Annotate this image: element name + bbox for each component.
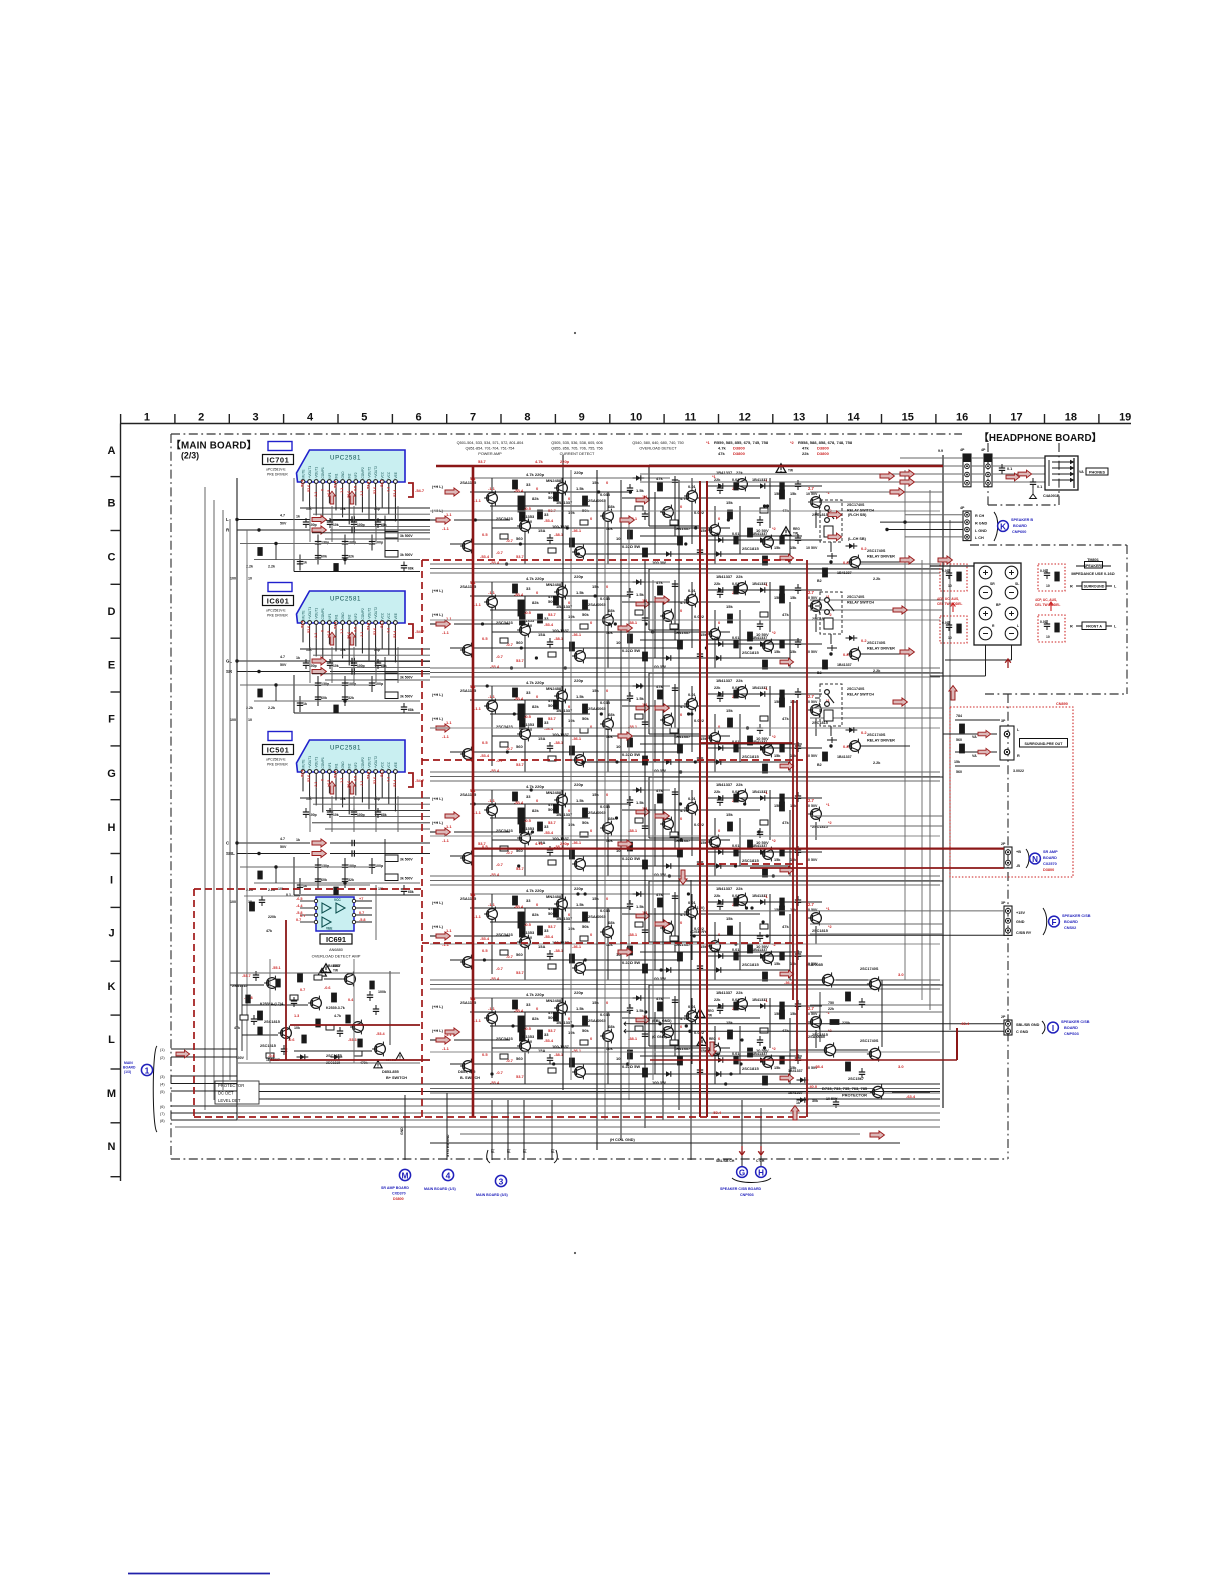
- svg-text:PRE DRIVER: PRE DRIVER: [267, 473, 288, 477]
- svg-text:VCC: VCC: [387, 471, 391, 478]
- svg-text:2SA/0085: 2SA/0085: [806, 963, 823, 967]
- svg-text:SR: SR: [990, 582, 995, 586]
- svg-text:4.7: 4.7: [280, 655, 285, 659]
- svg-text:-0.7: -0.7: [496, 550, 504, 555]
- svg-text:100: 100: [230, 718, 236, 722]
- svg-text:100-1337: 100-1337: [552, 732, 570, 737]
- svg-text:-0.5: -0.5: [524, 1026, 532, 1031]
- svg-text:50k: 50k: [582, 924, 589, 929]
- svg-text:SR: SR: [226, 669, 233, 674]
- svg-text:560: 560: [516, 1056, 523, 1061]
- svg-text:F: F: [1052, 918, 1057, 927]
- svg-text:1B41337: 1B41337: [716, 574, 733, 579]
- svg-text:-1.1: -1.1: [488, 798, 496, 803]
- svg-text:1B41337: 1B41337: [788, 1069, 803, 1073]
- svg-text:VEE: VEE: [326, 927, 332, 931]
- svg-text:-53.4: -53.4: [393, 631, 397, 639]
- svg-text:68k: 68k: [381, 813, 387, 817]
- svg-text:10: 10: [616, 744, 621, 749]
- svg-text:3k 500V: 3k 500V: [400, 553, 413, 557]
- svg-text:K: K: [108, 981, 116, 993]
- svg-text:4.7: 4.7: [280, 514, 285, 518]
- svg-text:0.8: 0.8: [843, 560, 849, 565]
- svg-text:-1.1: -1.1: [442, 838, 450, 843]
- svg-text:5W: 5W: [526, 935, 532, 940]
- svg-text:1B41337: 1B41337: [752, 686, 767, 690]
- svg-text:PRE DRIVER: PRE DRIVER: [267, 763, 288, 767]
- svg-text:15k: 15k: [592, 584, 599, 589]
- svg-text:0: 0: [320, 779, 324, 781]
- svg-text:UPC2581: UPC2581: [330, 596, 361, 603]
- svg-text:0.5: 0.5: [482, 532, 488, 537]
- svg-text:-53.4: -53.4: [393, 780, 397, 788]
- svg-text:15k: 15k: [774, 962, 781, 966]
- svg-text:0.8: 0.8: [843, 652, 849, 657]
- svg-text:1B41337: 1B41337: [674, 526, 691, 531]
- svg-text:15k: 15k: [306, 648, 312, 652]
- svg-text:15k: 15k: [592, 792, 599, 797]
- svg-text:15k: 15k: [726, 604, 733, 609]
- svg-text:10: 10: [616, 640, 621, 645]
- svg-text:68k: 68k: [608, 712, 615, 717]
- svg-text:B: B: [108, 498, 116, 510]
- svg-text:-1.1: -1.1: [488, 590, 496, 595]
- svg-text:RELAY DRIVER: RELAY DRIVER: [867, 647, 895, 651]
- svg-text:-53.4: -53.4: [367, 623, 371, 631]
- svg-text:53.7: 53.7: [478, 459, 487, 464]
- svg-text:82k: 82k: [532, 912, 539, 917]
- svg-text:12: 12: [739, 412, 751, 424]
- svg-text:3.0: 3.0: [898, 1064, 904, 1069]
- svg-text:4: 4: [446, 1171, 451, 1181]
- svg-text:-1.1: -1.1: [488, 902, 496, 907]
- svg-text:MN2488: MN2488: [546, 478, 562, 483]
- svg-text:(7): (7): [160, 1112, 165, 1116]
- svg-text:VA: VA: [972, 754, 977, 758]
- svg-text:1B41337: 1B41337: [556, 708, 573, 713]
- svg-text:10k: 10k: [340, 648, 346, 652]
- svg-text:-54.7: -54.7: [415, 778, 425, 783]
- svg-text:OVERLOAD DETECT: OVERLOAD DETECT: [639, 446, 677, 450]
- svg-text:COMP1: COMP1: [321, 467, 325, 479]
- svg-text:14: 14: [847, 412, 860, 424]
- svg-text:2SC15k7: 2SC15k7: [848, 1077, 864, 1081]
- svg-text:E: E: [108, 660, 115, 672]
- svg-text:+B: +B: [1016, 850, 1021, 854]
- svg-text:0.5: 0.5: [482, 948, 488, 953]
- svg-text:BP: BP: [996, 603, 1001, 607]
- svg-text:(+H L): (+H L): [432, 925, 444, 929]
- svg-text:BOARD: BOARD: [1043, 856, 1057, 860]
- svg-text:15k: 15k: [774, 858, 781, 862]
- svg-text:-53.4: -53.4: [334, 771, 338, 779]
- svg-text:15k: 15k: [774, 596, 781, 600]
- svg-text:2SC3423: 2SC3423: [496, 516, 513, 521]
- svg-text:B2: B2: [817, 671, 822, 675]
- svg-text:-53.4: -53.4: [367, 482, 371, 490]
- svg-text:22k: 22k: [736, 782, 743, 787]
- svg-text:MN2488: MN2488: [546, 582, 562, 587]
- svg-text:1.5k: 1.5k: [576, 902, 585, 907]
- svg-text:(+H L): (+H L): [432, 821, 444, 825]
- svg-text:0.01: 0.01: [688, 796, 697, 801]
- svg-text:0.2: 0.2: [861, 638, 867, 643]
- svg-text:-VOUT1: -VOUT1: [315, 757, 319, 769]
- svg-text:4.7k 220p: 4.7k 220p: [526, 576, 545, 581]
- svg-text:560: 560: [516, 536, 523, 541]
- svg-text:2SC3423: 2SC3423: [496, 932, 513, 937]
- svg-text:-VOUT1: -VOUT1: [315, 467, 319, 479]
- svg-text:50V: 50V: [280, 663, 287, 667]
- svg-text:J: J: [108, 927, 114, 939]
- svg-text:*1: *1: [826, 803, 830, 807]
- svg-text:R: R: [1017, 754, 1020, 758]
- svg-text:2SC1815: 2SC1815: [812, 929, 828, 933]
- svg-text:IN1: IN1: [334, 614, 338, 619]
- svg-text:BOARD: BOARD: [123, 1066, 136, 1070]
- svg-text:100-1337: 100-1337: [552, 1044, 570, 1049]
- svg-text:1k: 1k: [296, 838, 300, 842]
- svg-text:-VOUT1: -VOUT1: [315, 608, 319, 620]
- svg-text:22k: 22k: [828, 1007, 834, 1011]
- svg-text:CNPS03: CNPS03: [1064, 1032, 1079, 1036]
- svg-text:2.7: 2.7: [808, 1006, 814, 1011]
- svg-text:-0.5: -0.5: [353, 776, 357, 782]
- svg-text:REG: REG: [793, 527, 800, 531]
- svg-text:-0.6: -0.6: [288, 1038, 295, 1042]
- svg-text:4.7k: 4.7k: [680, 808, 689, 813]
- svg-text:-53.4: -53.4: [367, 772, 371, 780]
- svg-text:1.5k: 1.5k: [636, 488, 645, 493]
- svg-text:15A: 15A: [538, 736, 545, 741]
- svg-text:(+H L): (+H L): [432, 717, 444, 721]
- svg-text:47k: 47k: [234, 1026, 240, 1030]
- svg-text:-52.6: -52.6: [373, 487, 377, 495]
- svg-text:68k: 68k: [608, 816, 615, 821]
- svg-text:10k: 10k: [340, 507, 346, 511]
- svg-text:MN2488: MN2488: [546, 894, 562, 899]
- svg-text:TW: TW: [788, 469, 793, 473]
- svg-text:50V: 50V: [280, 845, 287, 849]
- svg-text:-53.4: -53.4: [514, 1008, 524, 1013]
- svg-text:22k: 22k: [714, 532, 721, 536]
- svg-text:0.22Ω 5W: 0.22Ω 5W: [622, 856, 640, 861]
- svg-text:IC501: IC501: [267, 746, 290, 755]
- svg-text:50k: 50k: [606, 630, 613, 635]
- svg-text:15A: 15A: [538, 528, 545, 533]
- svg-text:53.7: 53.7: [516, 970, 525, 975]
- svg-text:22k: 22k: [802, 451, 809, 456]
- svg-text:10k: 10k: [568, 614, 575, 619]
- svg-text:-0.7: -0.7: [506, 850, 514, 855]
- svg-text:IC601: IC601: [267, 597, 290, 606]
- svg-text:2.7: 2.7: [808, 694, 814, 699]
- svg-text:1B41337: 1B41337: [752, 478, 767, 482]
- svg-text:17: 17: [1010, 412, 1022, 424]
- svg-text:2.2k: 2.2k: [873, 669, 881, 673]
- svg-text:18: 18: [1065, 412, 1077, 424]
- svg-text:10k: 10k: [333, 664, 339, 668]
- svg-text:1.5k: 1.5k: [636, 696, 645, 701]
- svg-text:-38.1: -38.1: [628, 932, 638, 937]
- svg-text:(+H L): (+H L): [432, 797, 444, 801]
- svg-text:15k: 15k: [790, 546, 797, 550]
- svg-text:C/SB RY: C/SB RY: [1016, 931, 1032, 935]
- svg-text:220p: 220p: [560, 459, 570, 464]
- svg-text:K: K: [1000, 522, 1006, 531]
- svg-text:POWER AMP: POWER AMP: [478, 452, 502, 456]
- svg-text:-38.4: -38.4: [814, 1064, 824, 1069]
- svg-text:RELAY SWITCH: RELAY SWITCH: [847, 601, 874, 605]
- svg-text:-53.4: -53.4: [393, 490, 397, 498]
- svg-text:-53.4: -53.4: [480, 936, 490, 941]
- svg-text:2.2k: 2.2k: [873, 577, 881, 581]
- svg-text:-1.1: -1.1: [360, 632, 364, 638]
- svg-text:0.01: 0.01: [688, 900, 697, 905]
- svg-text:15k: 15k: [954, 760, 960, 764]
- svg-text:8: 8: [524, 412, 530, 424]
- svg-text:MUTE: MUTE: [301, 469, 305, 478]
- svg-text:COMP2: COMP2: [361, 608, 365, 620]
- svg-text:-0.7: -0.7: [496, 654, 504, 659]
- svg-text:10k: 10k: [294, 1026, 300, 1030]
- svg-text:47k: 47k: [802, 445, 809, 450]
- svg-text:53.7: 53.7: [548, 716, 557, 721]
- svg-text:CNS02: CNS02: [1064, 926, 1076, 930]
- svg-text:33: 33: [526, 690, 531, 695]
- svg-text:53.7: 53.7: [548, 924, 557, 929]
- svg-text:-53.4: -53.4: [544, 934, 554, 939]
- svg-text:I: I: [1052, 1024, 1054, 1033]
- svg-text:0.1: 0.1: [1007, 467, 1012, 471]
- svg-text:9.9: 9.9: [938, 449, 943, 453]
- svg-text:4.7: 4.7: [280, 837, 285, 841]
- svg-text:33: 33: [526, 482, 531, 487]
- svg-text:-1.1: -1.1: [314, 782, 318, 788]
- svg-text:53.7: 53.7: [516, 554, 525, 559]
- svg-text:5W: 5W: [526, 1039, 532, 1044]
- svg-text:560: 560: [516, 640, 523, 645]
- svg-text:1B41337: 1B41337: [837, 663, 852, 667]
- svg-text:-52.6: -52.6: [307, 775, 311, 783]
- svg-text:68k: 68k: [608, 504, 615, 509]
- svg-text:2.2k: 2.2k: [873, 761, 881, 765]
- svg-text:53.7: 53.7: [516, 866, 525, 871]
- svg-text:3k 500V: 3k 500V: [400, 858, 413, 862]
- svg-text:7: 7: [470, 412, 476, 424]
- svg-text:SURROUND-PRE OUT: SURROUND-PRE OUT: [1025, 742, 1064, 746]
- svg-text:-1.1: -1.1: [474, 1018, 482, 1023]
- svg-text:-53.4: -53.4: [480, 753, 490, 758]
- svg-text:2SC1815: 2SC1815: [742, 858, 759, 863]
- svg-text:*2: *2: [828, 925, 832, 929]
- svg-text:COMP2: COMP2: [361, 467, 365, 479]
- svg-text:0.22Ω 5W: 0.22Ω 5W: [622, 752, 640, 757]
- svg-text:2SC1740S: 2SC1740S: [847, 687, 865, 691]
- svg-text:53.7: 53.7: [548, 612, 557, 617]
- svg-text:-52.6: -52.6: [373, 628, 377, 636]
- svg-text:5W: 5W: [526, 831, 532, 836]
- svg-text:1.3: 1.3: [294, 1014, 299, 1018]
- svg-text:NF1: NF1: [328, 762, 332, 768]
- svg-text:VEE: VEE: [394, 762, 398, 768]
- svg-text:0.2: 0.2: [861, 546, 867, 551]
- svg-text:SL: SL: [1015, 582, 1019, 586]
- svg-text:NF2: NF2: [354, 762, 358, 768]
- svg-text:22k: 22k: [714, 686, 721, 690]
- svg-text:100-1337: 100-1337: [552, 524, 570, 529]
- svg-text:3k 500V: 3k 500V: [400, 534, 413, 538]
- svg-text:D3800: D3800: [733, 451, 746, 456]
- svg-text:53.7: 53.7: [478, 841, 487, 846]
- svg-text:PROTECTOR: PROTECTOR: [842, 1093, 867, 1098]
- svg-text:3P: 3P: [1001, 901, 1006, 905]
- svg-text:47k: 47k: [656, 684, 663, 689]
- svg-text:-38.1: -38.1: [554, 532, 564, 537]
- svg-text:5W: 5W: [526, 519, 532, 524]
- svg-text:NF1: NF1: [328, 613, 332, 619]
- svg-text:NF1: NF1: [328, 472, 332, 478]
- svg-text:1k: 1k: [303, 561, 307, 565]
- svg-text:10: 10: [948, 584, 952, 588]
- svg-text:L: L: [1017, 624, 1019, 628]
- svg-text:-53.4: -53.4: [514, 488, 524, 493]
- svg-text:82k: 82k: [532, 1016, 539, 1021]
- svg-text:-53.4: -53.4: [544, 830, 554, 835]
- svg-text:-0.5: -0.5: [524, 818, 532, 823]
- svg-text:1B41337: 1B41337: [752, 894, 767, 898]
- svg-text:33p: 33p: [374, 797, 380, 801]
- svg-text:Q851-854, 701-704, 751-754: Q851-854, 701-704, 751-754: [466, 446, 515, 450]
- svg-text:15k: 15k: [592, 688, 599, 693]
- svg-text:10: 10: [248, 718, 252, 722]
- svg-text:4.7k 220p: 4.7k 220p: [526, 784, 545, 789]
- svg-text:3.0: 3.0: [898, 972, 904, 977]
- svg-text:SPEAKER C/SB: SPEAKER C/SB: [1062, 914, 1091, 918]
- svg-text:220p: 220p: [574, 574, 584, 579]
- svg-text:3P: 3P: [1001, 719, 1006, 723]
- svg-text:2SC1740S: 2SC1740S: [867, 641, 886, 645]
- svg-text:CX2570: CX2570: [1043, 862, 1057, 866]
- svg-text:0.01: 0.01: [732, 478, 739, 482]
- svg-text:10k: 10k: [568, 926, 575, 931]
- svg-text:4.7k: 4.7k: [535, 459, 544, 464]
- svg-text:B2: B2: [817, 763, 822, 767]
- svg-text:D: D: [108, 606, 116, 618]
- svg-text:+VOUT2: +VOUT2: [374, 607, 378, 620]
- svg-text:GND: GND: [341, 761, 345, 769]
- svg-text:-0.7: -0.7: [506, 746, 514, 751]
- svg-text:50V: 50V: [280, 522, 287, 526]
- svg-text:4.7k: 4.7k: [680, 496, 689, 501]
- svg-text:-53.4: -53.4: [514, 592, 524, 597]
- svg-text:4.7k: 4.7k: [718, 445, 727, 450]
- svg-text:68k: 68k: [381, 523, 387, 527]
- svg-text:220p: 220p: [574, 886, 584, 891]
- svg-text:-1.1: -1.1: [340, 488, 344, 494]
- svg-text:0.01: 0.01: [732, 844, 739, 848]
- svg-text:L CH: L CH: [975, 536, 984, 540]
- svg-text:R GND: R GND: [975, 521, 987, 525]
- svg-text:-53.3: -53.3: [348, 1038, 357, 1042]
- svg-text:15k: 15k: [790, 650, 797, 654]
- svg-text:4P: 4P: [960, 506, 965, 510]
- svg-text:2SC1815: 2SC1815: [742, 1066, 759, 1071]
- svg-text:SURROUND: SURROUND: [1084, 585, 1105, 589]
- svg-text:(+H L): (+H L): [432, 1005, 444, 1009]
- svg-text:30k: 30k: [812, 1099, 818, 1103]
- svg-text:0.01: 0.01: [688, 1004, 697, 1009]
- svg-text:-1.1: -1.1: [360, 781, 364, 787]
- svg-text:10: 10: [616, 1056, 621, 1061]
- svg-text:4.7k 220p: 4.7k 220p: [526, 888, 545, 893]
- svg-text:1B41337: 1B41337: [752, 636, 767, 640]
- svg-text:-1.1: -1.1: [386, 777, 390, 783]
- svg-text:(H COIL GND): (H COIL GND): [610, 1138, 636, 1142]
- svg-text:3k 500V: 3k 500V: [400, 695, 413, 699]
- svg-text:VEE: VEE: [394, 472, 398, 478]
- svg-text:22k: 22k: [714, 790, 721, 794]
- svg-text:(R-CH SB): (R-CH SB): [848, 513, 867, 517]
- svg-text:2SC1815: 2SC1815: [742, 546, 759, 551]
- svg-text:D3800: D3800: [817, 445, 830, 450]
- svg-text:100V: 100V: [236, 1056, 245, 1060]
- svg-text:AN6880: AN6880: [329, 948, 343, 952]
- svg-text:82k: 82k: [532, 808, 539, 813]
- svg-text:D3800: D3800: [1043, 868, 1054, 872]
- svg-text:4.7k: 4.7k: [680, 1016, 689, 1021]
- svg-text:15k: 15k: [726, 500, 733, 505]
- svg-text:1.5k: 1.5k: [636, 1008, 645, 1013]
- svg-text:VCC: VCC: [387, 761, 391, 768]
- svg-text:IN2: IN2: [348, 614, 352, 619]
- svg-text:0.01: 0.01: [1040, 620, 1047, 624]
- svg-text:+7: +7: [359, 897, 363, 901]
- svg-text:16: 16: [956, 412, 968, 424]
- svg-text:-1.1: -1.1: [386, 628, 390, 634]
- svg-text:-1.1: -1.1: [360, 491, 364, 497]
- svg-text:2SC1740S: 2SC1740S: [867, 733, 886, 737]
- svg-text:MN2488: MN2488: [546, 686, 562, 691]
- svg-text:10: 10: [948, 636, 952, 640]
- svg-text:NF2: NF2: [354, 613, 358, 619]
- svg-text:+15V: +15V: [1016, 911, 1025, 915]
- svg-text:68k: 68k: [408, 567, 414, 571]
- svg-text:VA: VA: [1079, 470, 1084, 474]
- svg-text:SYSTEM GND: SYSTEM GND: [446, 1134, 450, 1157]
- svg-text:(1): (1): [160, 1048, 165, 1052]
- svg-text:2SC3423: 2SC3423: [496, 828, 513, 833]
- svg-text:4P: 4P: [960, 448, 965, 452]
- svg-text:-1.1: -1.1: [314, 633, 318, 639]
- svg-text:SPEAKER B: SPEAKER B: [1011, 518, 1033, 522]
- svg-text:0.01: 0.01: [688, 588, 697, 593]
- svg-text:IC701: IC701: [267, 456, 290, 465]
- svg-text:-38.1: -38.1: [554, 636, 564, 641]
- svg-text:(L-CH SB): (L-CH SB): [848, 537, 867, 541]
- svg-text:-1.1: -1.1: [488, 694, 496, 699]
- svg-text:22k: 22k: [714, 582, 721, 586]
- svg-text:47k: 47k: [656, 996, 663, 1001]
- svg-text:1k: 1k: [796, 1101, 800, 1105]
- svg-text:-36.1: -36.1: [572, 840, 582, 845]
- svg-text:0.1: 0.1: [1037, 485, 1042, 489]
- svg-text:1B41337: 1B41337: [716, 990, 733, 995]
- svg-text:47k: 47k: [718, 451, 725, 456]
- svg-text:(+H L): (+H L): [432, 693, 444, 697]
- svg-text:47k: 47k: [656, 580, 663, 585]
- svg-text:-0.5: -0.5: [524, 922, 532, 927]
